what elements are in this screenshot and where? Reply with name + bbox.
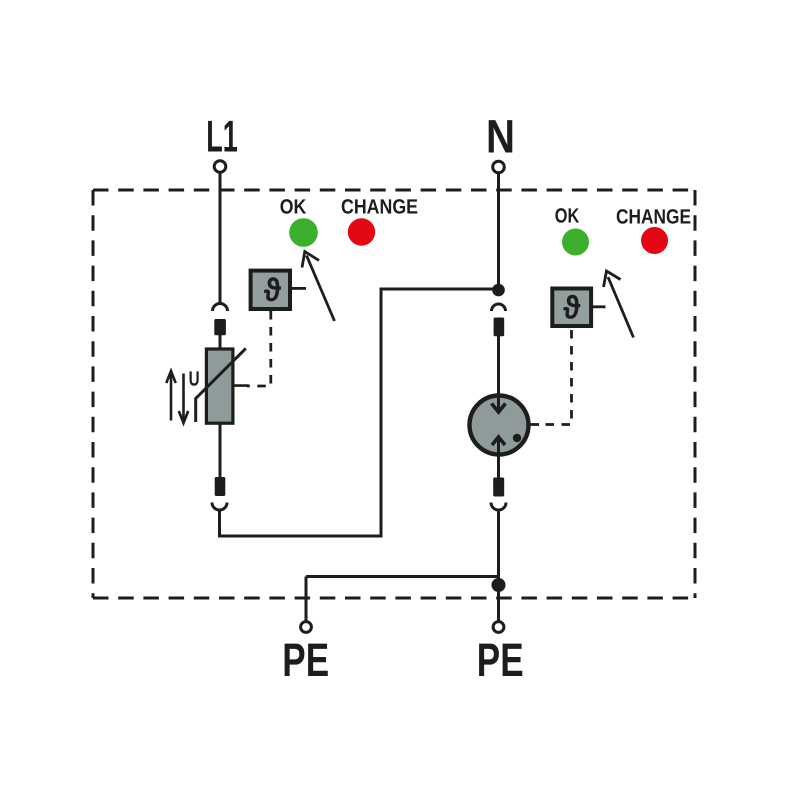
dashed enclosure border bottom [93, 597, 695, 600]
dashed link thermal box to GDT [542, 330, 572, 425]
dashed enclosure border right [694, 190, 697, 598]
wire left branch to N-junction [220, 289, 495, 536]
thermal box stub right (left) [290, 287, 306, 290]
terminal PE right [493, 622, 504, 633]
svg-text:PE: PE [282, 633, 329, 686]
svg-text:OK: OK [555, 204, 580, 227]
svg-text:ϑ: ϑ [563, 290, 580, 326]
dashed enclosure border left [92, 190, 95, 598]
terminal L1 [214, 161, 226, 173]
svg-text:L1: L1 [206, 113, 238, 162]
dashed enclosure border top [93, 189, 695, 192]
varistor right tap stub [233, 384, 249, 387]
svg-text:ϑ: ϑ [264, 272, 281, 308]
GDT electrode dot [513, 434, 521, 442]
fuse element (left lower) [215, 477, 226, 496]
wire fuse to GDT [497, 336, 500, 410]
green LED OK (right) [562, 229, 589, 256]
dashed link thermal box to varistor [247, 311, 271, 386]
fuse element (right lower) [493, 478, 504, 497]
gas discharge tube body [470, 396, 529, 455]
wire GDT branch down to PE [497, 510, 500, 621]
varistor diagonal stroke [196, 348, 246, 422]
indicator arrow (left) [307, 256, 335, 322]
fuse element (left upper) [214, 319, 226, 335]
wire L1 down [219, 173, 222, 303]
disconnect arc upper (left branch) [213, 304, 228, 312]
varistor body [206, 349, 233, 423]
thermal box stub right (right) [591, 305, 605, 308]
disconnect arc upper (right branch) [492, 304, 506, 311]
svg-text:PE: PE [477, 633, 524, 686]
svg-text:U: U [189, 368, 200, 391]
indicator arrow (right) [608, 277, 634, 338]
thermal sensor box (right) [552, 289, 591, 327]
GDT stub right [531, 423, 540, 426]
terminal PE left [301, 622, 312, 633]
GDT bottom arrow [492, 437, 505, 445]
U down arrow [182, 374, 185, 422]
green LED OK (left) [289, 218, 318, 247]
svg-text:CHANGE: CHANGE [341, 196, 418, 219]
wire fuse to varistor [219, 335, 222, 349]
U up arrow [170, 373, 173, 421]
PE cross wire [306, 575, 499, 578]
terminal N [493, 161, 505, 173]
GDT top arrow [497, 396, 500, 411]
disconnect arc lower (right branch) [491, 503, 506, 511]
svg-text:CHANGE: CHANGE [616, 205, 691, 228]
fuse element (right upper) [494, 318, 505, 337]
wire varistor down [219, 423, 222, 477]
wire N down [497, 173, 500, 285]
thermal sensor box (left) [251, 271, 290, 309]
junction N [492, 284, 505, 297]
left PE lead [305, 577, 308, 622]
disconnect arc lower (left branch) [212, 503, 227, 511]
red LED CHANGE (left) [348, 218, 375, 245]
junction PE [492, 578, 506, 592]
svg-text:OK: OK [280, 196, 307, 219]
red LED CHANGE (right) [641, 227, 668, 254]
svg-text:N: N [486, 110, 515, 163]
